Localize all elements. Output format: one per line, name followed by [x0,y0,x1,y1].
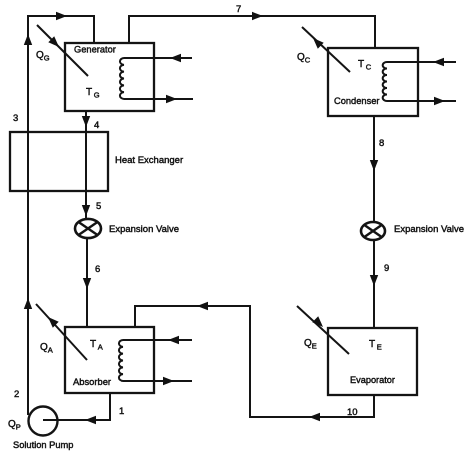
arrow up on stream 2 [24,34,32,45]
svg-text:T: T [369,339,375,350]
arrow right on generator outlet [166,95,177,103]
node 5 label [96,201,101,212]
svg-text:G: G [94,91,100,100]
wire: stream 6 expansion valve to absorber [86,238,88,327]
svg-text:Q: Q [36,50,44,61]
svg-text:6: 6 [95,264,100,275]
svg-text:T: T [86,87,92,98]
svg-text:9: 9 [384,263,389,274]
svg-text:4: 4 [94,120,99,131]
svg-text:Absorber: Absorber [73,376,111,387]
svg-text:T: T [358,59,364,70]
node 6 label [95,264,100,275]
svg-text:G: G [44,54,50,63]
solution pump label [13,440,73,450]
svg-text:1: 1 [119,406,124,417]
arrow left on stream 10 upper segment [197,302,208,310]
wire: pump outlet up left side (stream 2-3) [28,16,94,415]
svg-text:2: 2 [14,389,19,400]
arrow down on stream 6 [83,278,91,289]
heat exchanger label [115,155,183,166]
evaporator box [328,328,417,395]
svg-text:Q: Q [8,419,16,430]
absorber box [65,327,154,393]
svg-text:Heat Exchanger: Heat Exchanger [115,155,183,166]
svg-text:A: A [48,346,53,355]
condenser coil inlet pipe [387,61,456,63]
left expansion valve label [109,224,179,235]
svg-text:Q: Q [40,342,48,353]
node 2 label [14,389,19,400]
svg-text:5: 5 [96,201,101,212]
node 9 label [384,263,389,274]
absorber label [73,376,111,387]
arrow right on absorber outlet [163,377,174,385]
generator label [74,45,116,55]
svg-text:Generator: Generator [74,45,116,55]
svg-text:P: P [16,423,21,432]
svg-text:A: A [98,343,103,352]
arrow left on condenser inlet [433,58,444,66]
svg-text:C: C [366,63,372,72]
heat rejection arrow Q_C [302,27,350,72]
right expansion valve [361,222,385,240]
arrow down on stream 8 [370,160,378,171]
svg-text:Q: Q [297,52,305,63]
arrow down on stream 5 [82,205,90,216]
svg-text:8: 8 [379,138,384,149]
svg-text:Solution Pump: Solution Pump [13,440,73,450]
label T_A [90,339,103,352]
svg-text:E: E [312,342,317,351]
arrow right on stream 7 [252,12,263,20]
label Q_A [40,342,53,355]
condenser coil outlet pipe [387,100,456,102]
solution pump [29,407,58,436]
label Q_P [8,419,21,432]
heat input arrow Q_E [297,306,349,354]
svg-text:10: 10 [347,407,358,418]
arrow up on stream 3 [24,298,32,309]
wire: stream 10 evaporator to absorber [135,306,374,417]
condenser label [334,96,379,106]
right expansion valve label [394,224,464,235]
node 1 label [119,406,124,417]
label T_G [86,87,100,100]
label T_E [369,339,382,352]
absorber coil inlet pipe [123,339,192,341]
generator heating coil [120,58,124,99]
wire: stream 8 condenser to expansion valve [373,116,375,223]
wire: stream 7 generator to condenser [129,16,375,48]
svg-text:Evaporator: Evaporator [350,375,395,385]
generator box [65,43,154,111]
condenser box [328,48,418,116]
node 10 label [347,407,358,418]
svg-text:Expansion Valve: Expansion Valve [109,224,179,235]
node 8 label [379,138,384,149]
wire: stream 4-5 generator to expansion valve [85,111,87,219]
node 3 label [13,113,18,124]
svg-text:Expansion Valve: Expansion Valve [394,224,464,235]
wire: stream 9 expansion valve to evaporator [373,240,375,328]
heat rejection arrow Q_A [36,304,87,360]
svg-text:7: 7 [236,4,241,15]
label Q_E [304,338,317,351]
evaporator label [350,375,395,385]
heat input arrow Q_G [37,25,88,76]
label T_C [358,59,372,72]
svg-text:Q: Q [304,338,312,349]
label Q_G [36,50,50,63]
arrow left on stream 10 lower segment [309,413,320,421]
heat exchanger box [10,132,108,191]
arrow down on stream 9 [370,275,378,286]
left expansion valve [75,219,101,238]
generator coil outlet pipe [124,98,193,100]
svg-text:3: 3 [13,113,18,124]
svg-text:E: E [377,343,382,352]
wire: stream 1 absorber to solution pump [43,393,110,420]
arrow left on stream 1 [85,416,96,424]
generator coil inlet pipe [124,57,192,59]
arrow right on top-left wire [56,12,67,20]
arrow left on generator inlet [170,54,181,62]
arrow right on condenser outlet [434,97,445,105]
absorber cooling coil [119,340,123,381]
svg-text:C: C [305,56,311,65]
node 4 label [94,120,99,131]
svg-text:T: T [90,339,96,350]
arrow down on stream 4 [82,116,90,127]
node 7 label [236,4,241,15]
arrow left on absorber inlet [168,336,179,344]
condenser coil [383,62,387,101]
label Q_C [297,52,311,65]
absorber coil outlet pipe [123,380,192,382]
svg-text:Condenser: Condenser [334,96,379,106]
